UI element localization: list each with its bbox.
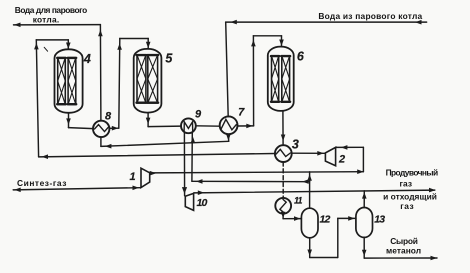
arrow: up on separator 13 gas riser bbox=[362, 192, 367, 199]
arrowheads bbox=[14, 20, 437, 260]
wire: compressor 2 suction top run bbox=[336, 146, 364, 148]
wire: reactor 5 outlet drop bbox=[147, 113, 149, 127]
arrow: left near corner of boiler water inlet line bbox=[230, 20, 237, 25]
wire: reactor 5 feed riser bbox=[119, 39, 120, 129]
svg-text:13: 13 bbox=[374, 214, 385, 226]
arrow: left along boiler water line into exchanger 8 bbox=[105, 144, 112, 149]
svg-text:газ: газ bbox=[400, 201, 414, 211]
wire: dashed line exchanger 3 to cooler 11 bbox=[282, 162, 284, 198]
arrow: down on reactor 5 outlet bbox=[146, 118, 151, 125]
svg-text:12: 12 bbox=[319, 214, 330, 226]
arrow: down on separator 12 bottoms bbox=[307, 250, 312, 257]
wire: reactor 6 outlet to exchanger 3 bbox=[282, 111, 284, 145]
svg-text:2: 2 bbox=[338, 154, 345, 166]
wire: reactor 4 outlet to exchanger 8 bbox=[69, 128, 94, 129]
reactor 6 bbox=[268, 47, 294, 111]
arrow: down on cooler 11 outlet bbox=[281, 212, 286, 219]
arrow: down into exchanger 3 bbox=[281, 135, 286, 142]
wire: cooler 11 outlet drop bbox=[282, 214, 284, 219]
svg-text:7: 7 bbox=[238, 107, 245, 119]
arrow: right into separator 12 bbox=[294, 216, 301, 221]
wire: exchanger 7 bottom stub bbox=[227, 134, 229, 141]
wire: boiler water inlet top-right bbox=[226, 21, 427, 23]
svg-text:Синтез-газ: Синтез-газ bbox=[17, 178, 66, 188]
arrow: right from exchanger 3 into compressor 2 bbox=[317, 151, 324, 156]
wire: reactor 5 outlet to exchanger 9 bbox=[148, 125, 181, 128]
wire: separator 12 gas riser bbox=[309, 172, 311, 208]
wire: cooler 11 to separator 12 bbox=[283, 218, 301, 220]
wire: reactor 5 inlet drop bbox=[147, 39, 149, 48]
svg-text:4: 4 bbox=[83, 52, 91, 66]
svg-text:Продувочный: Продувочный bbox=[386, 168, 439, 178]
wire: boiler water outlet top-left bbox=[14, 24, 101, 26]
arrow: down on exchanger 7 bottom stub bbox=[226, 134, 231, 141]
wire: compressor 1 discharge line to compressor 2 suction riser bbox=[150, 172, 364, 173]
svg-text:8: 8 bbox=[105, 111, 112, 123]
arrow: up into exchanger 9 coil bbox=[191, 137, 196, 144]
wire: exchanger 3 to compressor 2 bbox=[292, 152, 325, 154]
compressor 10 (second stage turbocompressor) bbox=[185, 193, 193, 210]
wire: riser from exchanger 8 top to boiler water outlet bbox=[99, 25, 102, 121]
compressor 2 (recycle circulator) bbox=[325, 147, 335, 165]
wire: boiler water line from exchanger 7 to exchanger 8 bbox=[101, 141, 229, 146]
separator 12 bbox=[301, 208, 318, 238]
wire: separator 12 bottoms drop bbox=[309, 238, 311, 258]
heat exchanger 3 (feed/effluent exchanger) bbox=[275, 145, 292, 162]
arrow: right into separator 13 bbox=[348, 216, 355, 221]
heat exchanger 9 (gas interchanger, M coil) bbox=[181, 118, 196, 133]
wire: exchanger 9 coil downcomer to compressor 10 bbox=[183, 133, 185, 196]
svg-text:5: 5 bbox=[165, 52, 173, 66]
svg-text:1: 1 bbox=[129, 171, 135, 183]
arrow: down on reactor 4 outlet bbox=[66, 118, 71, 125]
labels: equipment numbers bbox=[83, 50, 305, 152]
arrow: left at start of synthesis gas line bbox=[14, 188, 21, 193]
arrow: right into compressor 1 suction bbox=[133, 186, 140, 191]
svg-text:11: 11 bbox=[294, 196, 303, 206]
wire: riser from exchanger 7 top to boiler water inlet line bbox=[226, 22, 229, 117]
reactor 5 bbox=[134, 49, 162, 113]
arrow: up on separator 12 gas riser bbox=[307, 174, 312, 181]
wire: reactor 5 inlet top run bbox=[120, 38, 148, 40]
arrow: left at reactor 4 feed riser corner bbox=[42, 154, 49, 159]
wire: exchanger 8 bottom stub bbox=[100, 137, 102, 146]
heat exchanger 7 (waste-heat boiler) bbox=[220, 116, 238, 134]
arrow: down into compressor 10 bbox=[182, 187, 187, 194]
wire: feed into separator 13 bbox=[338, 217, 356, 219]
arrow: right at end of crude methanol line bbox=[431, 256, 438, 261]
stray tick mark near reactor 4 bbox=[44, 47, 47, 51]
wire: compressor 2 suction riser bbox=[362, 147, 364, 171]
wire: exchanger 7 to reactor 6 riser run bbox=[238, 125, 254, 127]
arrow: down on separator 13 bottoms bbox=[362, 250, 367, 257]
arrow: boiler water out, points left bbox=[14, 23, 21, 28]
wire: separator 12 bottoms bottom run bbox=[310, 257, 338, 259]
arrow: left on recycle line to exchanger 9, left arrow bbox=[196, 179, 203, 184]
arrow: up on reactor 5 feed riser bbox=[117, 43, 122, 50]
wire: separator 13 bottoms drop bbox=[363, 237, 365, 258]
wire: synthesis gas feed line bbox=[13, 188, 140, 190]
svg-text:9: 9 bbox=[195, 109, 202, 121]
catalyst bed rectangles of reactor 5 bbox=[137, 55, 159, 103]
svg-text:Вода из парового котла: Вода из парового котла bbox=[318, 11, 422, 21]
arrow: right into compressor 2 suction riser corner bbox=[357, 169, 364, 174]
svg-text:котла.: котла. bbox=[33, 14, 60, 24]
wire: reactor 6 inlet top run bbox=[253, 35, 281, 37]
arrow: down into reactor 5 bbox=[146, 42, 151, 49]
arrow: right at end of purge gas line bbox=[429, 188, 436, 193]
catalyst bed rectangles of reactor 6 bbox=[271, 56, 290, 102]
wire: reactor 4 inlet drop bbox=[67, 40, 69, 49]
cooler-condenser 11 bbox=[275, 198, 291, 214]
wire: recycle gas line to exchanger 9 riser bbox=[192, 180, 310, 182]
arrow: up on reactor 6 feed riser bbox=[251, 40, 256, 47]
arrow: right from exchanger 7 to reactor 6 riser bbox=[246, 124, 253, 129]
arrow: right on compressor 10 discharge bbox=[198, 190, 205, 195]
wire: reactor 4 inlet top run bbox=[36, 39, 68, 41]
svg-text:газ: газ bbox=[400, 178, 413, 188]
arrow: right on compressor 1 discharge bbox=[150, 171, 157, 176]
arrow: left near start of boiler water inlet line bbox=[415, 20, 422, 25]
catalyst bed rectangles of reactor 4 bbox=[57, 58, 76, 105]
wire: separator 12 bottoms riser bbox=[337, 218, 339, 257]
arrow: up on reactor 4 feed riser bbox=[34, 43, 39, 50]
compressor 1 (syngas turbocompressor) bbox=[141, 168, 150, 187]
arrow: down into reactor 4 bbox=[66, 43, 71, 50]
wire: exchanger 3 to reactor 4 feed line bbox=[39, 154, 275, 157]
svg-text:метанол: метанол bbox=[386, 246, 421, 256]
reactor 4 bbox=[55, 49, 83, 113]
svg-text:3: 3 bbox=[292, 138, 299, 152]
arrow: right from exchanger 8 to reactor 5 riser bbox=[112, 126, 119, 131]
wire: crude methanol product line bbox=[364, 257, 437, 259]
wire: reactor 4 feed riser bbox=[36, 40, 38, 157]
svg-text:Сырой: Сырой bbox=[390, 236, 418, 246]
wire: exchanger 8 to reactor 5 riser run bbox=[109, 127, 118, 129]
separator 13 bbox=[356, 208, 373, 238]
arrow: up into top-left corner on exchanger 8 riser bbox=[98, 30, 103, 37]
arrow: left into compressor 2 top corner bbox=[341, 145, 348, 150]
wire: exchanger 9 to exchanger 7 bbox=[196, 125, 220, 127]
wire: reactor 4 outlet drop bbox=[68, 113, 70, 128]
svg-text:6: 6 bbox=[297, 50, 305, 64]
wire: reactor 6 inlet drop bbox=[281, 36, 283, 46]
arrow: left on recycle line to exchanger 9, right arrow bbox=[302, 179, 309, 184]
arrow: down into reactor 6 bbox=[279, 40, 284, 47]
wire: riser into exchanger 9 coil bbox=[191, 133, 193, 181]
svg-text:10: 10 bbox=[196, 197, 207, 209]
wire: compressor 10 discharge and purge gas line bbox=[194, 190, 435, 193]
wire: reactor 6 feed riser bbox=[252, 36, 254, 126]
heat exchanger 8 (waste-heat boiler) bbox=[93, 121, 109, 137]
wire: separator 13 gas riser bbox=[363, 191, 365, 208]
